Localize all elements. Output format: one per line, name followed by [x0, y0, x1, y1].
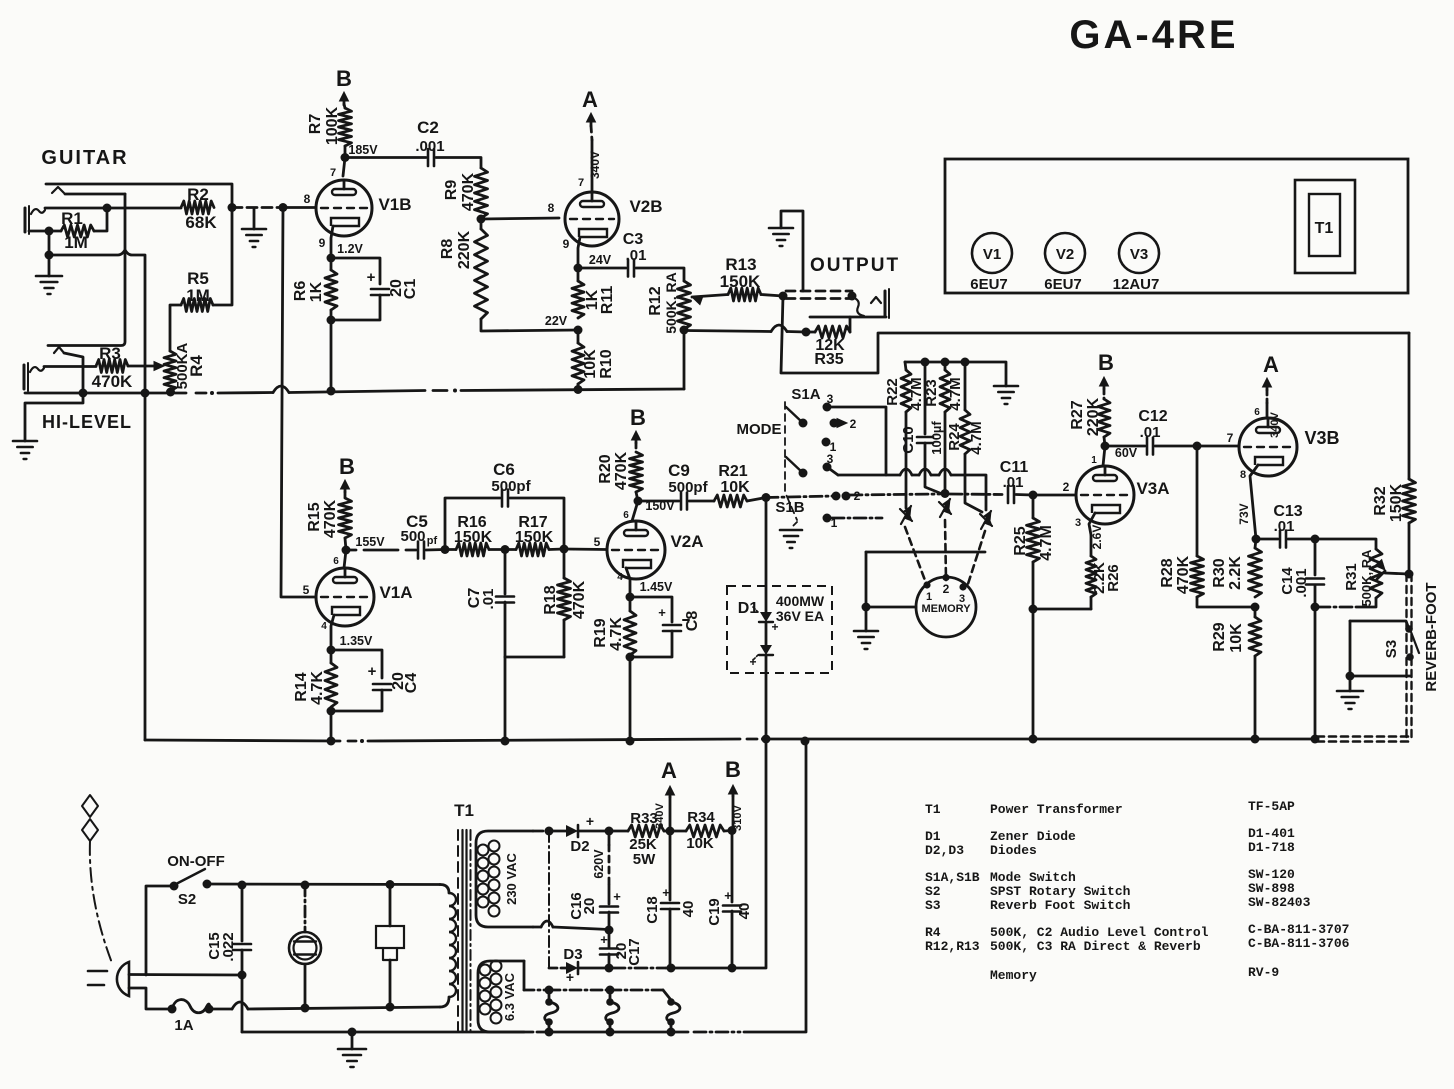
svg-text:ON-OFF: ON-OFF: [167, 853, 225, 870]
svg-text:C12: C12: [1138, 408, 1167, 425]
wire R20 to 150V: [636, 492, 638, 501]
svg-text:C-BA-811-3706: C-BA-811-3706: [1248, 936, 1350, 951]
junction interlock bottom: [386, 1003, 395, 1012]
pin 5 label V1A: [303, 583, 310, 597]
switch S1A contact2: [830, 417, 857, 431]
junction bus R25: [1029, 735, 1038, 744]
junction mem top b: [941, 358, 950, 367]
pin 2 label V3A: [1063, 480, 1070, 494]
svg-text:T1: T1: [925, 802, 941, 817]
svg-text:C3: C3: [623, 231, 644, 248]
svg-text:R23: R23: [923, 379, 940, 407]
resistor R22: [884, 362, 925, 412]
wire C5 to node: [426, 548, 445, 551]
wire ch2: [944, 412, 947, 494]
tube V1A: [316, 568, 413, 626]
svg-text:R27: R27: [1069, 400, 1086, 429]
junction R6 bottom: [327, 316, 336, 325]
wire R4 top to R5: [170, 305, 181, 351]
capacitor C18: [644, 885, 697, 924]
pin 4 label V1A: [321, 621, 327, 632]
switch S2: [167, 853, 225, 908]
capacitor C16 wire: [608, 831, 611, 904]
secondary 6.3VAC: [478, 961, 524, 1033]
wire R1 left: [29, 230, 61, 233]
svg-text:R3: R3: [99, 344, 121, 363]
svg-text:Mode Switch: Mode Switch: [990, 870, 1076, 885]
svg-text:D2,D3: D2,D3: [925, 843, 964, 858]
wire C14 bottom: [1314, 585, 1317, 607]
wire R31 bottom: [1319, 598, 1376, 607]
svg-text:2.2K: 2.2K: [1227, 556, 1244, 590]
ground G7: [854, 631, 878, 649]
right border mid: [1408, 523, 1411, 574]
resistor R19: [592, 597, 636, 655]
supply arrow B1: [336, 66, 352, 105]
svg-text:V1B: V1B: [378, 195, 411, 214]
capacitor C19 wire: [731, 831, 734, 903]
capacitor C10: [900, 421, 944, 455]
junction input common: [45, 251, 54, 260]
svg-text:40: 40: [680, 901, 697, 918]
svg-text:3: 3: [1075, 517, 1081, 529]
switch S1A contact3: [823, 403, 832, 412]
capacitor C1: [371, 279, 419, 300]
svg-text:T1: T1: [1315, 220, 1334, 237]
svg-text:R4: R4: [187, 355, 206, 377]
svg-text:68K: 68K: [185, 213, 217, 232]
resistor R35: [806, 317, 850, 368]
svg-text:7: 7: [330, 167, 336, 179]
junction R17 right: [560, 545, 569, 554]
wire R8 to 22V: [481, 319, 578, 331]
capacitor C12: [1138, 408, 1167, 455]
ground G4: [769, 228, 793, 246]
svg-text:Power Transformer: Power Transformer: [990, 802, 1123, 817]
wire B3 to R20: [635, 443, 638, 452]
svg-text:R7: R7: [307, 114, 324, 135]
capacitor C2: [415, 118, 444, 166]
resistor R6: [292, 258, 337, 320]
wire ch1: [905, 412, 908, 508]
svg-text:+: +: [658, 605, 666, 620]
wire cathode V1B: [331, 226, 333, 258]
svg-text:185V: 185V: [348, 143, 378, 157]
wire C2 to R9: [436, 158, 481, 169]
line cord cap: [82, 795, 98, 841]
junction C17 bottom: [605, 964, 614, 973]
svg-text:V2A: V2A: [670, 532, 703, 551]
wire 185V to plate: [343, 158, 345, 177]
zener diode D1b: [749, 645, 773, 669]
svg-text:20: 20: [581, 898, 598, 915]
junction output hot: [779, 292, 788, 301]
ground G8: [1337, 691, 1363, 709]
svg-text:6: 6: [1254, 407, 1260, 418]
junction 22V: [545, 314, 583, 335]
text D1: [738, 600, 759, 617]
svg-text:C10: C10: [900, 426, 917, 454]
junction bus R14: [327, 737, 336, 746]
svg-text:C-BA-811-3707: C-BA-811-3707: [1248, 922, 1349, 937]
zener diode D1a: [753, 607, 779, 634]
zener box D1 outline: [727, 586, 832, 673]
wire ch3: [965, 454, 982, 512]
junction B node: [728, 826, 737, 835]
resistor R26: [1086, 525, 1122, 609]
svg-text:4.7K: 4.7K: [309, 671, 326, 705]
junction A node: [666, 827, 675, 836]
junction R25 R26: [1029, 605, 1038, 614]
wire R7 to 185V: [344, 146, 347, 157]
wire 155V to C5: [346, 549, 416, 552]
svg-text:10K: 10K: [720, 479, 750, 496]
wire B2 to R15: [344, 492, 347, 498]
output sleeve wire: [810, 316, 886, 319]
wire node to R31: [1315, 539, 1376, 549]
svg-text:R9: R9: [443, 180, 460, 201]
svg-text:S2: S2: [178, 891, 196, 908]
wire 150V to C9: [638, 500, 679, 503]
wire plug line: [129, 988, 168, 1009]
wire memory lead: [866, 606, 916, 609]
svg-text:S1A: S1A: [791, 386, 820, 403]
svg-text:470K: 470K: [1175, 555, 1192, 594]
svg-text:R12,R13: R12,R13: [925, 939, 980, 954]
wire R29 to bus: [1254, 656, 1257, 739]
wire 230 bottom: [533, 921, 609, 930]
svg-text:3: 3: [959, 593, 965, 605]
wire cathode V2B: [578, 237, 580, 268]
svg-text:A: A: [661, 758, 677, 783]
fuse F1: [168, 1000, 214, 1034]
svg-text:470K: 470K: [460, 172, 477, 211]
wire hi-level ring: [64, 353, 83, 392]
svg-text:D1-401: D1-401: [1248, 826, 1295, 841]
junction R21 node: [762, 493, 771, 502]
svg-text:+: +: [749, 655, 756, 669]
wire 60V to C12: [1105, 445, 1145, 448]
wire C10 bottom: [925, 443, 941, 494]
capacitor C3: [623, 231, 647, 277]
wire cathode V3A: [1089, 513, 1095, 535]
secondary 230VAC: [476, 831, 533, 927]
diode D3: [549, 946, 583, 985]
ground G9: [338, 1049, 366, 1067]
transformer core: [458, 830, 471, 1032]
wire R1 to ground: [48, 231, 51, 256]
left border wire: [144, 393, 147, 740]
capacitor C15: [206, 932, 251, 961]
svg-text:6EU7: 6EU7: [1044, 276, 1082, 293]
wire R19 to bus: [629, 657, 632, 741]
resistor R8: [439, 219, 488, 319]
junction heater2 bottom: [606, 1028, 615, 1037]
resistor R3: [92, 344, 133, 391]
junction R12 bottom: [680, 326, 689, 335]
svg-text:C6: C6: [493, 460, 515, 479]
tube V3 legend: [1113, 233, 1160, 293]
wire R14 to bus: [330, 711, 333, 741]
capacitor C14: [1279, 567, 1324, 598]
wire R25 bottom: [1032, 562, 1035, 609]
text HI-LEVEL: [42, 412, 132, 432]
tube V1 legend: [970, 233, 1012, 293]
text REVERB-FOOT: [1423, 582, 1440, 691]
svg-text:RV-9: RV-9: [1248, 965, 1279, 980]
wire 73V to C13: [1256, 538, 1278, 541]
junction 1.45V: [626, 580, 673, 602]
wire negative rail up: [732, 741, 766, 968]
svg-text:R11: R11: [599, 286, 616, 315]
svg-text:S3: S3: [925, 898, 941, 913]
wire R3 to R4 wiper: [128, 362, 164, 371]
transformer primary coil: [440, 885, 456, 1008]
svg-text:R31: R31: [1343, 563, 1360, 591]
capacitor C9: [668, 461, 708, 510]
capacitor C4: [373, 672, 420, 693]
wire C15 bottom: [241, 950, 244, 975]
pin 3 label V3A: [1075, 517, 1081, 529]
junction bus C7: [501, 737, 510, 746]
junction C15 top: [238, 881, 247, 890]
supply arrow B4: [1098, 350, 1114, 389]
ground G7 stub: [865, 607, 868, 631]
svg-text:6.3 VAC: 6.3 VAC: [502, 972, 517, 1021]
junction 150V: [634, 497, 676, 514]
junction C11 right: [1029, 491, 1038, 500]
svg-text:6: 6: [623, 510, 629, 521]
svg-text:8: 8: [1240, 469, 1246, 481]
svg-text:8: 8: [548, 201, 555, 215]
wire grid drop to V1A: [281, 208, 316, 598]
grid dashed wire: [232, 206, 283, 209]
resistor R23: [923, 362, 964, 412]
svg-text:GA-4RE: GA-4RE: [1069, 13, 1238, 57]
junction bus left border: [141, 389, 150, 398]
svg-text:8: 8: [304, 192, 311, 206]
junction C16 bottom: [605, 926, 614, 935]
memory unit: [916, 574, 976, 637]
svg-text:R21: R21: [718, 463, 747, 480]
junction R2 right: [228, 203, 237, 212]
svg-text:100µf: 100µf: [929, 421, 944, 455]
switch S1B label: [775, 499, 804, 516]
svg-text:R18: R18: [542, 585, 559, 614]
switch S1A label: [791, 386, 833, 406]
capacitor C7: [466, 588, 514, 610]
svg-text:.01: .01: [626, 247, 647, 264]
resistor R30: [1211, 539, 1262, 597]
svg-text:R14: R14: [293, 672, 310, 701]
diode D2: [549, 813, 594, 855]
svg-text:40: 40: [736, 903, 753, 920]
wire 185V to C2: [345, 156, 426, 159]
wire C4 top: [331, 650, 382, 678]
wire C18 bottom: [669, 909, 672, 968]
svg-text:500pf: 500pf: [668, 479, 708, 496]
svg-text:R10: R10: [598, 349, 615, 378]
resistor R33: [609, 810, 670, 868]
resistor R34: [670, 809, 732, 852]
wire S1B2 dashdot: [850, 494, 1002, 495]
resistor R11: [572, 268, 616, 318]
svg-text:220K: 220K: [456, 230, 473, 269]
svg-text:400MW: 400MW: [776, 593, 825, 609]
svg-text:500: 500: [400, 528, 425, 545]
wire cathode V1A: [331, 615, 334, 650]
potentiometer R4: [164, 342, 206, 391]
resistor R14: [293, 650, 337, 707]
junction bus R4: [166, 388, 175, 397]
wire vert x125: [48, 194, 125, 346]
junction heater1 bottom: [545, 1028, 554, 1037]
wire S3 left: [1349, 621, 1352, 676]
lower bus wire: [145, 737, 1315, 743]
svg-text:D1: D1: [925, 829, 941, 844]
resistor R27: [1069, 389, 1110, 446]
lower bus dashed right: [1317, 737, 1410, 742]
svg-text:150K: 150K: [454, 529, 493, 546]
junction output right: [848, 292, 857, 301]
wire C7 to bus: [504, 657, 507, 741]
svg-text:R8: R8: [439, 239, 456, 260]
supply arrow B3: [630, 405, 646, 443]
resistor R32: [1372, 479, 1416, 523]
wire S1A3 across: [827, 407, 886, 475]
svg-text:Diodes: Diodes: [990, 843, 1037, 858]
svg-text:4: 4: [617, 572, 623, 583]
switch S3: [1383, 625, 1419, 661]
switch S1B contact1: [823, 514, 883, 531]
tube V2A: [607, 521, 704, 579]
svg-text:4.7K: 4.7K: [608, 617, 625, 651]
right border dashed: [1407, 574, 1412, 739]
pin 1 label V3A: [1091, 455, 1097, 466]
svg-text:340V: 340V: [588, 151, 602, 179]
svg-text:150K: 150K: [515, 529, 554, 546]
negative rail: [578, 967, 732, 970]
capacitor C14 wire: [1314, 539, 1317, 575]
svg-text:500K, C3 RA Direct & Reverb: 500K, C3 RA Direct & Reverb: [990, 939, 1201, 954]
resistor R5: [181, 269, 213, 312]
primary bottom wire: [209, 1002, 440, 1009]
svg-text:R25: R25: [1012, 526, 1029, 555]
svg-text:R26: R26: [1105, 564, 1122, 592]
text 620V: [592, 849, 606, 879]
svg-text:7: 7: [578, 177, 584, 189]
svg-text:470K: 470K: [92, 372, 133, 391]
pin 6 label V3B: [1254, 407, 1260, 418]
svg-text:620V: 620V: [592, 849, 606, 879]
svg-text:MODE: MODE: [737, 421, 782, 438]
svg-text:R15: R15: [306, 502, 323, 531]
resistor R28: [1159, 446, 1204, 597]
text MODE: [737, 421, 782, 438]
wire D3 branch: [548, 831, 550, 968]
pin 9 label: [319, 236, 326, 250]
svg-text:+: +: [600, 932, 608, 947]
junction C19 bottom: [728, 964, 737, 973]
mech dashed link: [785, 402, 797, 520]
junction R31 wiper border: [1405, 570, 1414, 579]
pin 8 label: [304, 192, 311, 206]
wire between zeners: [765, 622, 768, 645]
junction mem top a: [921, 358, 930, 367]
capacitor C17: [600, 912, 643, 968]
text 73V: [1237, 503, 1251, 524]
text T1 transformer: [454, 801, 474, 820]
capacitor C8: [658, 605, 701, 631]
capacitor C15 wire: [241, 885, 244, 941]
svg-text:230 VAC: 230 VAC: [504, 853, 519, 905]
svg-text:R29: R29: [1211, 622, 1228, 651]
svg-text:6: 6: [333, 556, 339, 567]
resistor R2: [181, 185, 217, 232]
junction bus C14: [1311, 735, 1320, 744]
wire R12 to R35: [684, 325, 806, 332]
wire C11 to node: [1016, 493, 1033, 496]
wire plug S2 drop: [146, 886, 174, 975]
resistor R16: [445, 514, 505, 556]
svg-text:R1: R1: [61, 209, 83, 228]
hi-level jack J2: [24, 347, 64, 391]
wire output to border: [781, 296, 1409, 373]
tube V3A: [1076, 466, 1170, 524]
resistor R20: [597, 451, 643, 492]
wire 230 top: [533, 830, 549, 833]
tube V3B: [1239, 418, 1340, 476]
ground G2 stub: [48, 255, 51, 276]
pilot lamp wire bottom: [304, 964, 307, 1008]
svg-text:D3: D3: [563, 946, 582, 963]
junction R35 left: [802, 328, 811, 337]
svg-text:Memory: Memory: [990, 968, 1037, 983]
svg-text:10K: 10K: [1228, 623, 1245, 653]
resistor R29: [1211, 607, 1261, 656]
pin 6 label V1A: [333, 556, 339, 567]
svg-text:R20: R20: [597, 454, 614, 483]
wiper R12: [692, 295, 728, 305]
wire memory left upper: [866, 551, 985, 554]
resistor R1: [61, 209, 94, 252]
svg-text:R28: R28: [1159, 558, 1176, 587]
svg-text:S1B: S1B: [775, 499, 804, 516]
wire C4 bottom: [331, 690, 382, 711]
ground G5: [780, 530, 802, 548]
svg-text:220K: 220K: [1085, 397, 1102, 436]
tube V2 legend: [1044, 233, 1085, 293]
svg-text:R6: R6: [292, 281, 309, 302]
wire R21 to S1B: [747, 498, 766, 502]
svg-text:10K: 10K: [582, 349, 599, 379]
svg-text:V2B: V2B: [629, 197, 662, 216]
wire R12 to bus: [683, 330, 686, 389]
AC plug: [88, 962, 129, 996]
supply arrow A2: [1263, 352, 1280, 390]
potentiometer R12: [647, 272, 691, 333]
junction C18 bottom: [667, 964, 676, 973]
spark gap 3: [980, 511, 992, 529]
capacitor C10 wire: [924, 362, 927, 434]
svg-text:R19: R19: [592, 618, 609, 647]
wire R1 right lead: [94, 208, 107, 231]
svg-text:4.7M: 4.7M: [1038, 525, 1055, 561]
resistor R13: [720, 255, 761, 301]
svg-text:SW-898: SW-898: [1248, 881, 1295, 896]
svg-text:+: +: [771, 620, 778, 634]
wire C7 bottom: [504, 602, 507, 657]
